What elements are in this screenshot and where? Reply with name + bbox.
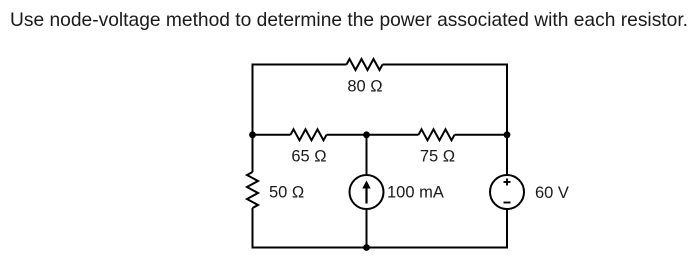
wire: right rail lower (voltage source to bottom corner) — [506, 209, 508, 249]
resistor 65 ohm — [291, 129, 327, 140]
current source arrow — [362, 181, 370, 204]
wire: left rail to 50 ohm top lead — [252, 135, 254, 172]
wire: top rail right segment — [383, 64, 508, 66]
svg-text:100 mA: 100 mA — [387, 183, 444, 201]
wire: node b to 75 ohm — [367, 134, 419, 136]
svg-text:65 Ω: 65 Ω — [291, 148, 326, 166]
resistor 50 ohm (left branch) — [247, 172, 258, 208]
wire: top rail left segment — [253, 64, 347, 66]
voltage source minus terminal — [504, 202, 511, 204]
value label 65 Ω — [291, 148, 326, 166]
value label 50 Ω — [269, 184, 304, 202]
svg-text:75 Ω: 75 Ω — [420, 148, 455, 166]
wire: middle rail node a to 65 ohm — [253, 134, 291, 136]
node b (center mid junction) — [363, 131, 370, 138]
node a (left mid junction) — [249, 131, 256, 138]
svg-text:50 Ω: 50 Ω — [269, 184, 304, 202]
resistor 75 ohm — [419, 129, 455, 140]
value label 75 Ω — [420, 148, 455, 166]
voltage source plus terminal — [504, 179, 511, 186]
value label 100 mA — [387, 183, 444, 201]
wire: 75 ohm to node c — [455, 134, 508, 136]
title text — [10, 9, 688, 31]
wire: right rail node c to voltage source — [506, 135, 508, 175]
value label 80 Ω — [347, 78, 382, 96]
value label 60 V — [535, 184, 569, 202]
current source 100 mA — [350, 175, 384, 209]
svg-text:60 V: 60 V — [535, 184, 569, 202]
node c (right mid junction) — [504, 131, 511, 138]
wire: right rail upper (top corner to node c) — [506, 64, 508, 135]
node d (bottom junction) — [363, 244, 370, 251]
svg-text:Use node-voltage method to det: Use node-voltage method to determine the… — [10, 9, 688, 31]
wire: middle branch upper (node b to current source) — [366, 135, 368, 175]
wire: left rail lower (50 ohm bottom lead to bottom corner) — [252, 208, 254, 249]
wire: 65 ohm to node b — [327, 134, 367, 136]
voltage source 60 V — [490, 175, 524, 209]
svg-text:80 Ω: 80 Ω — [347, 78, 382, 96]
wire: bottom rail — [252, 247, 509, 249]
resistor 80 ohm (top) — [347, 59, 383, 70]
wire: middle branch lower (current source to bottom node d) — [366, 209, 368, 248]
wire: left rail upper (top corner to node a) — [252, 64, 254, 135]
